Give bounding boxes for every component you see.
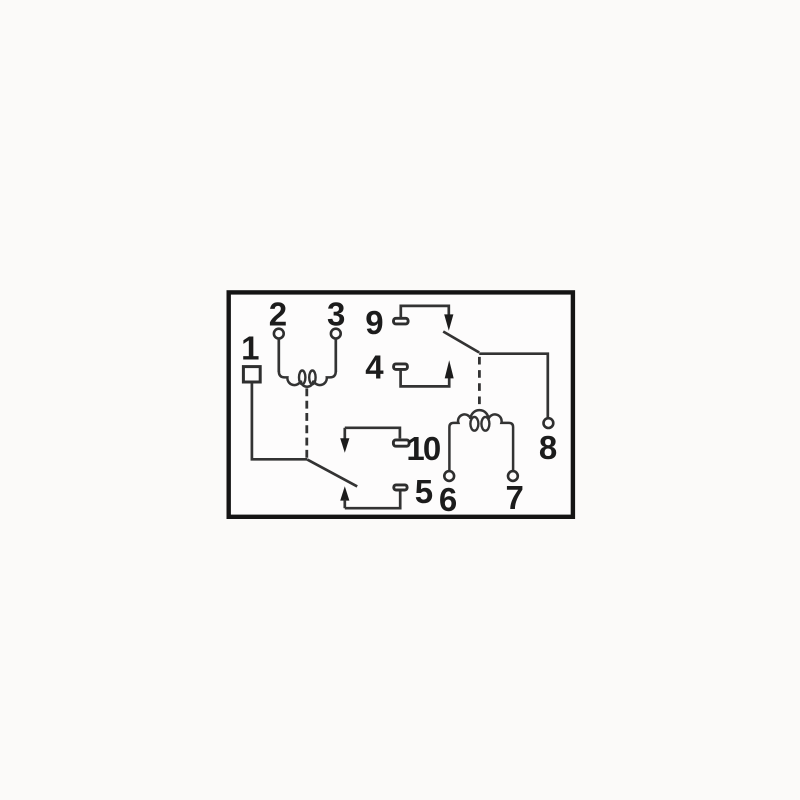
pin 2 circle (274, 329, 284, 339)
dashed mechanical link from SW2 to coil L2 (478, 357, 481, 407)
coil L2 loop b (481, 417, 489, 431)
pin 9 terminal (394, 318, 409, 324)
coil L1 loop b (309, 371, 315, 385)
svg-text:0: 0 (423, 430, 441, 467)
svg-text:1: 1 (241, 330, 259, 367)
wire pin 2 to coil L1 (277, 339, 280, 372)
pin 3 circle (331, 329, 341, 339)
coil L2 (between pins 6 and 7) (449, 410, 513, 471)
SW1 lower fixed contact arrow (to pin 5) (340, 486, 349, 500)
switch SW1 movable blade (307, 460, 357, 487)
svg-text:6: 6 (439, 481, 457, 518)
relay case outline (229, 292, 573, 516)
coil L1 (between pins 2 and 3) (279, 371, 336, 387)
svg-text:3: 3 (327, 296, 345, 333)
svg-text:7: 7 (506, 479, 524, 516)
dashed mechanical link from coil L1 to SW1 (305, 388, 308, 458)
pin 1 terminal (square pad) (243, 367, 260, 382)
switch SW2 movable blade (443, 332, 479, 353)
pin 10 terminal (393, 440, 409, 446)
coil L2 loop a (470, 417, 478, 431)
svg-text:4: 4 (365, 348, 384, 385)
pin 7 circle (508, 471, 518, 481)
coil L1 loop a (299, 371, 305, 385)
SW1 upper fixed contact arrow (to pin 10) (343, 428, 346, 440)
pin 4 terminal (394, 364, 408, 370)
svg-text:9: 9 (365, 304, 383, 341)
pin 6 circle (444, 471, 454, 481)
wire SW2 pivot to pin 8 (479, 354, 548, 418)
SW2 lower fixed contact arrow (pin 4) (445, 360, 454, 378)
wire pin 3 to coil L1 (334, 339, 337, 372)
pin 5 terminal (394, 485, 407, 490)
wire SW1 upper contact to pin 10 (345, 428, 400, 439)
pin 8 circle (544, 418, 554, 428)
wire SW1 lower contact to pin 5 (345, 492, 400, 509)
wire pin 1 to switch SW1 pivot (252, 383, 307, 460)
wire pin 9 to SW2 upper contact (401, 306, 449, 318)
wire pin 4 to SW2 lower contact (401, 369, 450, 386)
svg-text:5: 5 (415, 473, 433, 510)
svg-text:8: 8 (539, 429, 557, 466)
svg-text:2: 2 (269, 296, 287, 333)
SW2 upper fixed contact arrow (pin 9) (444, 314, 453, 330)
